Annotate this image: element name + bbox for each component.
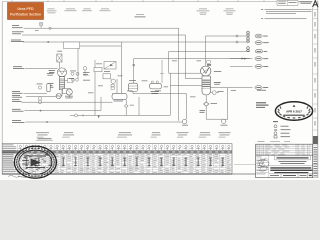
node text above title block — [258, 140, 291, 143]
node small stripper column W-1 — [47, 73, 54, 92]
wire mid inlet line y=96.6 — [26, 96, 56, 98]
node arrow on flag line 4 — [244, 58, 247, 60]
node seal interior noise — [24, 153, 51, 172]
node junction dot right on CWS line — [236, 41, 238, 43]
wire V-121 side pipe — [65, 79, 68, 81]
node column C-1 dome head — [201, 66, 211, 76]
wire CWS stream line 3 (y=42) long — [23, 41, 250, 43]
node stream label lower 1 — [12, 109, 24, 112]
wire lower line y=110.6 — [25, 110, 102, 112]
wire recycle riser from line2 (x=185.5) — [185, 35, 187, 79]
node oval received stamp — [275, 102, 312, 120]
node reactor R-1 vessel — [128, 80, 138, 91]
node legend item 4 box — [274, 136, 290, 138]
node label on y=95 line — [151, 91, 160, 94]
node signature cells left column — [256, 156, 269, 178]
wire flag line 4 — [230, 58, 253, 60]
node vessel V-121 dome — [57, 68, 66, 77]
node title block outer frame — [256, 144, 313, 177]
node vessel V-121 label — [49, 70, 56, 73]
node instrument circle end of y=122 — [182, 119, 188, 125]
wire vertical x=170.4 — [169, 73, 171, 115]
node stream flag 4 — [255, 57, 268, 61]
node small exchanger E-102 — [57, 51, 62, 62]
node stream table outer frame — [2, 144, 232, 174]
node column C-1 packed section (striped) — [202, 76, 210, 88]
node small label left of C-1 — [200, 110, 206, 113]
node stream table left header texts — [3, 145, 16, 173]
node instrument circle diag — [111, 79, 116, 84]
wire stream line 1 (y=28.2) — [24, 27, 179, 29]
node centered title above table — [36, 138, 53, 140]
node junction dot on stream 1 — [49, 27, 51, 29]
node pump P-101 circle — [56, 93, 61, 98]
wire drum box risers x=139, x=170 — [138, 97, 140, 115]
node bottoms box under V-121 — [63, 89, 71, 94]
node instrument bubble top-left — [39, 22, 42, 26]
node stream flag 2 — [255, 41, 269, 45]
node equipment title WB-106 (3 lines) — [197, 9, 210, 15]
node stream table header band — [2, 150, 232, 153]
node revision table smudges — [256, 145, 311, 155]
wire ladder corner x=168.7 down — [168, 51, 170, 73]
wire V-121 bottoms line — [61, 90, 63, 96]
wire vertical x=117 + feed y=93.8 — [116, 79, 118, 94]
wire C-1 bottoms drop x=206.2 — [205, 95, 207, 102]
wire overhead riser x=205.5 — [205, 36, 207, 66]
wire bubble stem — [40, 26, 42, 28]
wire page right border — [317, 1, 319, 178]
node scale/dwg/rev bottom cells — [269, 174, 313, 178]
wire CWR line y=68.6 — [25, 68, 58, 70]
svg-text:Purification Section: Purification Section — [10, 12, 41, 16]
node legend item 1 — [274, 125, 289, 128]
wire feed drop x=133.7 to reactor R1 — [133, 59, 135, 84]
node stream table data smudges — [18, 154, 231, 173]
node engineer seal inner ring — [19, 150, 52, 174]
node stream label PG-05 WB121-1 — [12, 25, 23, 28]
node exchanger E-103 box — [103, 71, 111, 79]
node junction dot on overhead line — [236, 35, 238, 37]
valve drain valve on drum bottoms — [124, 104, 128, 107]
valve bottoms diamond valve — [204, 102, 209, 106]
svg-text:APR 6 2017: APR 6 2017 — [286, 110, 302, 114]
svg-text:Urea PFD: Urea PFD — [17, 7, 34, 11]
node C-1 side valve circle — [210, 91, 223, 95]
wire page top border — [2, 1, 313, 3]
node handwriting left of seal — [8, 176, 19, 178]
node legend item 3 — [274, 132, 290, 135]
node seal date scribble below — [18, 176, 45, 177]
wire long bottom line y=122 — [26, 121, 183, 123]
node reference drawing box — [277, 1, 298, 6]
valve CV2 on flag line 2 — [247, 37, 250, 42]
node instrument bubble PI-1 — [38, 97, 41, 100]
node equipment title WB-105 — [135, 14, 146, 17]
wire page bottom border — [2, 173, 256, 175]
node heater E-101 box — [64, 42, 80, 49]
node equipment title WB-103 — [100, 9, 111, 12]
node stream label CWR — [13, 66, 24, 69]
valve CV1 on flag line 1 — [247, 31, 250, 36]
wire downcomer x=186.5 — [186, 94, 188, 120]
node circle on mid line — [75, 114, 78, 117]
node legend item 2 bowtie — [274, 129, 290, 131]
node valve pair top cluster — [70, 71, 90, 76]
node stream table bottom heavy line — [2, 173, 232, 175]
node equipment title WB-107 (3 lines) — [224, 9, 236, 15]
wire ladder line y=50.5 — [169, 50, 250, 52]
node stream label mid inlet — [12, 95, 22, 98]
wire leader line left of title block — [234, 164, 256, 166]
node stream flag 5 — [255, 65, 268, 69]
node scattered tag labels — [69, 61, 236, 98]
node orange sheet label "Urea PFD Purification Section" — [8, 3, 44, 20]
node drawing title dark lines — [270, 167, 312, 173]
node company name box — [275, 156, 311, 160]
wire overhead vapour line y=36 — [206, 35, 251, 37]
node drain valve label — [130, 104, 135, 107]
wire vertical x=95 — [94, 60, 96, 115]
node stream table dumbbell marks — [25, 157, 224, 166]
wire recycle riser from line1 (x=178.7) — [178, 28, 180, 121]
wire ladder line y=58.5 — [134, 58, 250, 60]
valve CV3 on flag line 3 — [247, 46, 250, 51]
wire feed to C-1 dome y=73.2 — [169, 72, 201, 74]
wire page left border — [1, 2, 3, 174]
wire product line y=87.6 from C-1 to flag6 — [211, 87, 253, 89]
node seal centre bands — [22, 155, 46, 168]
node instrument bubble TI — [38, 86, 41, 89]
node small box at x=94-102 — [94, 68, 102, 72]
node tick on mid line — [82, 114, 84, 116]
wire crossover y=78.7 into column C-1 — [186, 78, 202, 80]
wire main downcomer x=121.3 — [120, 42, 122, 94]
wire R-1 bottoms to y=95 — [132, 91, 134, 93]
node stream label lower 2 — [12, 120, 25, 123]
node equipment title WB-102 — [82, 9, 92, 12]
node revision strip dark cells bottom — [313, 136, 318, 178]
wire flag5 stub line y=66.5 — [230, 66, 253, 68]
node column C-1 bottom head — [202, 88, 210, 95]
wire bottoms runs right y=119.2 — [206, 118, 228, 120]
node revision table rows — [256, 144, 313, 155]
node notes block — [261, 9, 312, 19]
node legend NOTE heading — [273, 120, 278, 123]
node horizontal drum D-102 — [150, 81, 162, 89]
node stream number bubbles row above grid — [18, 145, 230, 150]
node zone letter A top-right — [313, 1, 318, 8]
node flash drum D-101 — [112, 93, 127, 101]
wire crossline y=85.7 — [170, 85, 202, 87]
node arrow on line y=58.5 — [242, 58, 245, 60]
node equipment title WB-101 — [65, 9, 77, 12]
node dot on y=122 — [46, 121, 48, 123]
node instrument bubble PI-2 — [38, 100, 41, 103]
wire downcomer x=227.3 — [226, 88, 228, 120]
node twin mini boxes — [111, 84, 114, 89]
wire heater outlet y=46 — [80, 45, 122, 47]
node purge text block lower right — [256, 102, 269, 108]
node C-1 head label — [214, 70, 222, 73]
node seal arc text marks — [16, 148, 55, 177]
node stream table row lines — [2, 150, 232, 171]
wire E-102 to V-121 dome — [59, 62, 61, 68]
node valve pair 2 — [72, 78, 90, 81]
node pump P-102 circle — [65, 89, 73, 98]
node left label box near V-121 — [48, 83, 54, 87]
node stream flag 6 (purge, 2-line) — [255, 86, 268, 91]
wire stream line 2 (y=35) — [22, 34, 186, 36]
node title block mid divider — [269, 165, 313, 167]
node dot on lower line — [40, 110, 42, 112]
node company sub lines — [279, 161, 307, 164]
node revision strip cells — [313, 9, 318, 130]
node C-1 section label — [214, 82, 221, 85]
node stream label 3rd inlet — [12, 99, 22, 102]
wire branch vertical x=78 — [77, 49, 79, 79]
node pump/exchanger box with diagonal — [104, 62, 116, 70]
node drop valve tick on x=133.7 — [133, 64, 135, 66]
node stream flag 1 — [255, 34, 268, 38]
node stream label PG-06 WB121-2 — [12, 91, 23, 94]
node title block divider line — [256, 155, 313, 157]
node seal centre triangle mark — [31, 159, 42, 167]
node side box on V-121 — [68, 78, 74, 82]
node C-1 inlet mini-valves above head — [207, 61, 211, 66]
node stream table column grid — [17, 144, 232, 174]
node engineer seal outer ring — [14, 146, 56, 178]
wire inlet line y=102.2 long — [22, 101, 113, 103]
wire riser x=101 — [100, 97, 102, 111]
wire mid line y=115.4 — [70, 114, 170, 116]
node bottoms valve label — [211, 102, 218, 105]
node label above TI — [37, 83, 43, 86]
node branch arrowhead on y=115.4 — [98, 116, 100, 119]
node instrument circle near x=224 — [221, 119, 228, 125]
node equipment bottom titles row — [36, 132, 231, 137]
node flow diamond on CWS line — [47, 41, 50, 43]
node top border zone ticks — [12, 0, 288, 1]
wire right revision strip inner line — [312, 8, 314, 178]
node stream label PRESS PC-1 (2 OF PM) — [12, 30, 39, 34]
node approval scribble stamp over title block — [258, 158, 270, 172]
node stream flag 3 — [256, 50, 268, 53]
node stream label CWS WB121-4 — [11, 40, 24, 42]
wire PG-06 line y=93.3 — [24, 92, 47, 94]
node drawing number A-4602 text — [300, 2, 313, 4]
node cross tick on drum feed — [160, 73, 164, 75]
wire drum feed x=162 — [161, 60, 163, 83]
node vessel V-121 body (tube bundle) — [59, 77, 64, 90]
wire bottoms drop continue — [205, 106, 207, 119]
node gauge circle with stem — [83, 67, 87, 77]
wire drum D-101 bottoms drop x=126.2 — [125, 100, 127, 116]
node label PG-05 note beside sticker — [47, 9, 57, 14]
